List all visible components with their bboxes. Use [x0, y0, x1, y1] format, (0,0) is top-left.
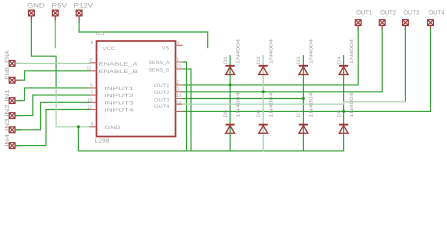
wire P5V down (light): [54, 21, 56, 48]
pad stub ENB: [16, 79, 22, 81]
svg-text:8: 8: [91, 121, 94, 126]
svg-text:1N4004: 1N4004: [269, 92, 275, 117]
pad stub IN1: [16, 100, 22, 102]
op box IC1: [97, 41, 176, 137]
svg-text:OUT3: OUT3: [154, 97, 170, 103]
svg-text:11: 11: [87, 66, 92, 71]
wire P12V horizontal: [79, 31, 208, 33]
pad stub P5V: [54, 16, 56, 22]
wire OUT1 net: [183, 29, 358, 85]
pad ENB: [9, 77, 15, 83]
svg-text:OUT4: OUT4: [154, 104, 170, 110]
wire OUT3 pad drop: [404, 29, 406, 102]
svg-text:GND: GND: [105, 125, 122, 131]
svg-text:INPUT1: INPUT1: [105, 86, 135, 92]
svg-text:D1: D1: [223, 56, 229, 64]
pad stub IN4: [16, 145, 22, 147]
svg-text:D5: D5: [223, 110, 229, 118]
pad GND: [29, 10, 35, 16]
svg-text:GND: GND: [27, 3, 45, 10]
svg-text:1N4004: 1N4004: [269, 39, 275, 64]
svg-text:1N4004: 1N4004: [235, 39, 241, 64]
junction D2 col / OUT2: [262, 90, 265, 93]
pin stubs right: [176, 45, 183, 111]
svg-text:VCC: VCC: [103, 46, 117, 52]
svg-text:SENS_B: SENS_B: [149, 67, 170, 73]
wire GND rail drop: [77, 127, 79, 151]
diode D6: [259, 125, 268, 134]
pad stub IN3: [16, 129, 22, 131]
wire OUT3 short net: [183, 98, 303, 100]
wire diode column D2/D6 light: [262, 56, 264, 151]
pad stub ENA: [16, 62, 22, 64]
svg-text:D2: D2: [256, 56, 262, 64]
pad stub GND: [30, 16, 32, 22]
wire GND light vertical: [56, 88, 89, 127]
junction D3 col / OUT3: [302, 97, 305, 100]
pad P12V: [76, 10, 82, 16]
wire diode column D3/D7: [302, 56, 304, 151]
diode D1: [226, 66, 235, 75]
svg-text:SENS_A: SENS_A: [149, 60, 171, 66]
pad ENA: [9, 61, 15, 67]
diode D8: [339, 125, 348, 134]
svg-text:15: 15: [177, 64, 183, 69]
svg-text:D4: D4: [336, 56, 342, 64]
pad OUT1: [355, 20, 361, 26]
pad stub P12V: [78, 16, 80, 22]
svg-text:OUT3: OUT3: [403, 10, 420, 17]
svg-text:INPUT3: INPUT3: [105, 100, 135, 106]
wire ENA light straight: [16, 62, 90, 64]
svg-text:10: 10: [87, 97, 93, 102]
wire diode column D4/D8: [343, 56, 345, 151]
junction D4 col / OUT4: [342, 110, 345, 113]
svg-text:VS: VS: [162, 46, 169, 52]
pad IN4: [9, 143, 15, 149]
wire IN2 staircase: [16, 95, 90, 116]
svg-text:P5V: P5V: [52, 3, 69, 10]
junction GND rail drop: [77, 125, 80, 128]
svg-text:OUT2: OUT2: [154, 90, 170, 96]
svg-text:6: 6: [90, 58, 93, 63]
pad stub OUT4: [430, 26, 432, 30]
svg-text:4: 4: [177, 40, 180, 45]
pad OUT2: [379, 20, 385, 26]
svg-text:L298: L298: [95, 137, 110, 144]
pad P5V: [52, 10, 58, 16]
svg-text:9: 9: [91, 40, 94, 45]
svg-text:12: 12: [87, 104, 93, 109]
pad IN1: [9, 98, 15, 104]
wire OUT4 net: [183, 29, 431, 111]
svg-text:1N4004: 1N4004: [235, 92, 241, 117]
svg-text:3: 3: [177, 87, 180, 92]
wire GND: pad down, jog right, (light part drawn separately): [31, 21, 56, 89]
pad IN3: [9, 127, 15, 133]
svg-text:5: 5: [90, 83, 93, 88]
svg-text:D3: D3: [296, 56, 302, 64]
wire P12V drop to VS: [207, 32, 209, 48]
IC pin names inside: [99, 46, 171, 131]
diode D5: [226, 125, 235, 134]
diode D7: [299, 125, 308, 134]
svg-text:OUT1: OUT1: [356, 10, 373, 17]
svg-text:IC1: IC1: [96, 31, 105, 37]
wire diode column D1/D5: [229, 56, 231, 151]
wire GND bottom rail: [78, 150, 343, 152]
pad OUT3: [403, 20, 409, 26]
diode D3: [299, 66, 308, 75]
svg-text:P12V: P12V: [74, 3, 95, 10]
svg-text:13: 13: [177, 93, 183, 98]
diode D4: [339, 66, 348, 75]
svg-text:OUT2: OUT2: [380, 10, 397, 17]
svg-text:D8: D8: [336, 110, 342, 118]
wire OUT2 net: [183, 29, 382, 92]
svg-text:14: 14: [177, 100, 183, 105]
svg-text:1N4004: 1N4004: [309, 92, 315, 117]
svg-text:1N4004: 1N4004: [349, 39, 355, 64]
svg-text:D6: D6: [256, 110, 262, 118]
svg-text:2: 2: [177, 80, 180, 85]
wire SENS_B down: [183, 69, 192, 151]
wire P12V down: [78, 21, 80, 33]
wire SENS_A down: [183, 62, 187, 151]
pin stubs left: [90, 63, 97, 127]
svg-text:INPUT2: INPUT2: [105, 93, 135, 99]
pad IN2: [9, 113, 15, 119]
wire OUT3 light horizontal: [183, 102, 405, 104]
pad OUT4: [428, 20, 434, 26]
junction D1 col / OUT1: [229, 83, 232, 86]
svg-text:7: 7: [90, 90, 93, 95]
svg-text:1N4004: 1N4004: [309, 39, 315, 64]
svg-text:INPUT4: INPUT4: [105, 108, 135, 114]
svg-text:1N4004: 1N4004: [349, 92, 355, 117]
pad stub OUT1: [357, 26, 359, 30]
svg-text:1: 1: [177, 57, 180, 62]
svg-text:D7: D7: [296, 110, 302, 118]
pad stub IN2: [16, 115, 22, 117]
svg-text:OUT1: OUT1: [154, 83, 170, 89]
svg-text:ENABLE_B: ENABLE_B: [99, 69, 138, 75]
wire IN1 staircase: [16, 88, 90, 101]
pad stub OUT3: [404, 26, 406, 30]
wire ENB staircase: [21, 71, 90, 80]
svg-text:OUT4: OUT4: [429, 10, 446, 17]
wire IN4 staircase: [16, 110, 90, 146]
pad stub OUT2: [381, 26, 383, 30]
wire IN3 staircase: [16, 102, 90, 130]
diode D2: [259, 66, 268, 75]
IC pin numbers: [87, 40, 182, 127]
svg-text:ENABLE_A: ENABLE_A: [99, 62, 139, 68]
